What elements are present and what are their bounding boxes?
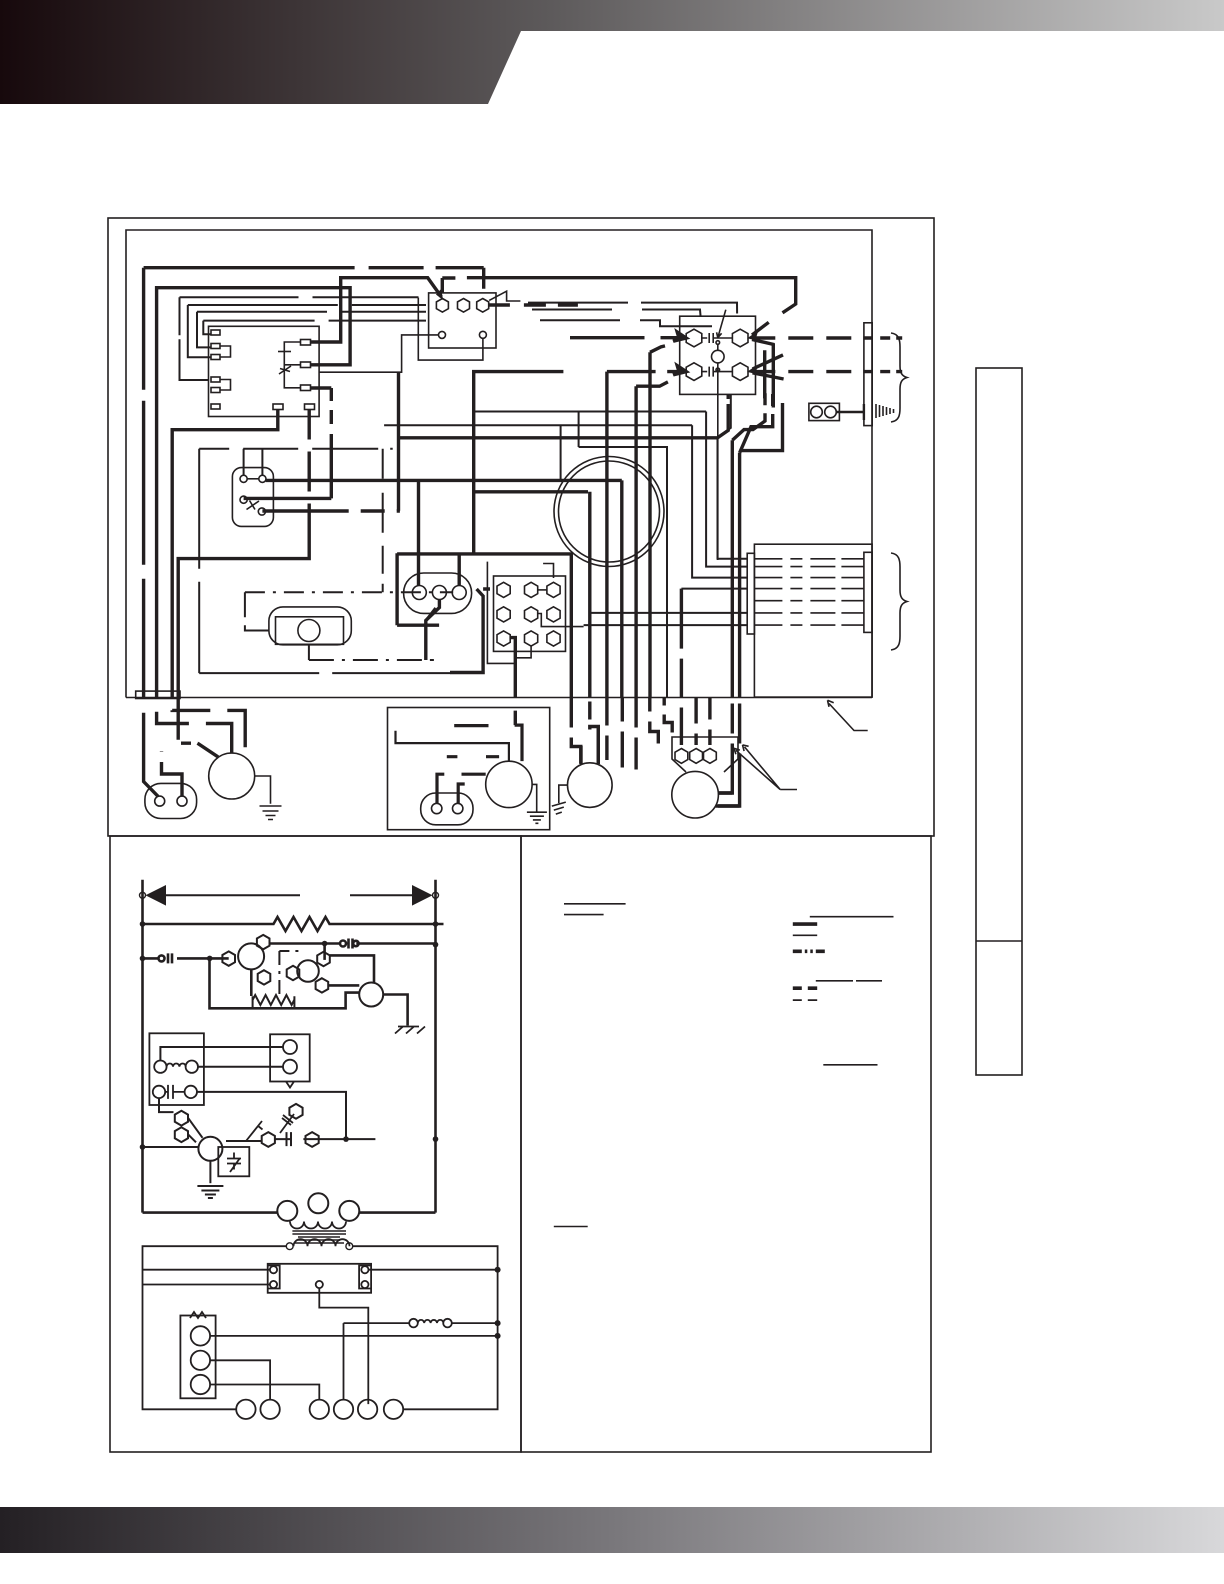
inducer ground wire	[383, 995, 407, 1026]
relay hex R1	[732, 329, 748, 347]
legend sample thin dash	[793, 999, 817, 1001]
tstat squiggle	[190, 1312, 206, 1318]
relay arrowheads R1	[748, 332, 761, 341]
cabinet inner box	[126, 230, 872, 698]
tstat circle 2	[191, 1351, 210, 1370]
fuse box	[268, 1264, 371, 1293]
rung2 drop	[323, 944, 326, 960]
right rail dot rung2	[433, 942, 439, 948]
block hex 11	[497, 582, 510, 597]
heavy v650	[650, 346, 665, 698]
xfmr core	[292, 1231, 346, 1243]
t-line 3	[197, 310, 701, 348]
igniter hex bottom	[258, 970, 271, 984]
left rail dot rung3	[140, 956, 146, 962]
block wire 22-23	[538, 614, 584, 627]
relay drop dash B	[740, 394, 773, 453]
board inner splice mark	[279, 366, 291, 374]
hex to motor links	[188, 1118, 203, 1143]
inducer wire top	[330, 955, 374, 982]
wire cap left down	[159, 1098, 174, 1112]
heavy low rung	[210, 958, 360, 1008]
heater wire 3	[754, 577, 864, 579]
blower motor ground wire	[255, 776, 271, 804]
tstat wire 1	[210, 1335, 498, 1337]
board terminal 1	[211, 330, 220, 335]
door switch blade	[247, 501, 260, 510]
legend col underline 3	[823, 1064, 877, 1066]
limit hex 2	[690, 749, 703, 764]
wire W3 top dashed	[144, 268, 484, 289]
wire W4 board b1	[172, 410, 278, 748]
rail right	[434, 880, 437, 1213]
terminal circle 2	[260, 1400, 279, 1419]
pin connector oval	[404, 573, 472, 613]
relay drop dash A	[732, 393, 765, 440]
right sidebar box	[976, 368, 1022, 1075]
fuse clip L	[268, 1266, 280, 1289]
wire W9 oval c2 lead	[426, 600, 440, 661]
below-wall dash 664	[664, 698, 672, 733]
rung1 resistor	[143, 917, 444, 931]
inductor coil terminal right	[443, 1319, 452, 1328]
legend col underline 1	[810, 916, 894, 918]
block hex 32	[525, 631, 538, 646]
heater wire 6	[754, 612, 864, 614]
wire cap to right	[197, 1092, 346, 1139]
switch blade 1	[246, 1121, 263, 1141]
bundle v739 heavy	[716, 453, 740, 806]
door switch contact D	[258, 508, 265, 515]
heater wire 2	[754, 566, 864, 568]
coil circle L	[154, 1061, 166, 1073]
relay arrow L1	[570, 332, 686, 341]
limit hex 1	[675, 749, 688, 764]
grommet wire	[836, 404, 864, 420]
motor rung link	[143, 1146, 199, 1148]
relay feed bevel	[442, 278, 795, 313]
wire W11 hexblock feed	[450, 589, 490, 673]
relay arrow L2	[607, 366, 686, 375]
motor entry 598	[597, 727, 600, 764]
relay junction box outline	[680, 316, 756, 394]
wire plug1	[160, 1047, 283, 1061]
heater tail 613	[591, 612, 748, 614]
terminal circle 6	[384, 1400, 403, 1419]
flame sensor circle	[297, 960, 319, 982]
heater brace	[891, 553, 907, 650]
block wire bottom exit	[516, 645, 532, 658]
motor entry 581	[579, 746, 582, 764]
t-line 1	[180, 297, 419, 380]
dimension line	[160, 894, 421, 896]
relay sensor wire	[717, 344, 719, 350]
limit feed 3	[708, 698, 711, 746]
wire oval box bottom	[397, 553, 439, 625]
inductor line	[344, 1323, 498, 1400]
block wire 12-13	[538, 589, 547, 591]
transformer hex terminal 1	[436, 299, 448, 313]
relay hex R2	[732, 363, 748, 381]
limit hex 3	[704, 749, 717, 764]
inducer motor circle	[486, 761, 532, 807]
tstat box	[180, 1316, 215, 1399]
plug notch	[286, 1082, 294, 1088]
heating element	[253, 995, 295, 1008]
tstat circle 1	[191, 1326, 210, 1345]
block hex 12	[525, 582, 538, 597]
thin v 560	[560, 425, 562, 481]
press hex 2	[175, 1127, 188, 1142]
field ground comb	[876, 404, 894, 418]
fuse wire L1	[143, 1269, 270, 1271]
block hex 22	[525, 607, 538, 622]
heater leader arrow	[828, 700, 868, 730]
sensor dashdot link	[279, 951, 298, 994]
relay arrow R1a	[752, 322, 774, 344]
legend sample dashdot	[793, 949, 825, 953]
inducer thin feed	[396, 731, 509, 761]
tstat circle 3	[191, 1375, 210, 1394]
dimension arrowheads	[147, 886, 432, 905]
terminal circle 4	[334, 1400, 353, 1419]
long low run	[199, 672, 450, 674]
t-line 2	[188, 303, 737, 358]
dimension end circles	[140, 892, 146, 898]
schematic inducer circle	[359, 983, 383, 1007]
circulator ground	[552, 785, 568, 814]
thin v 664	[579, 447, 667, 698]
gas valve solenoid circle	[298, 620, 320, 642]
inducer oval circle 2	[453, 803, 463, 813]
blower motor outer circle	[554, 457, 664, 567]
thin h 411	[474, 411, 706, 413]
t-line 4	[203, 320, 712, 334]
wire W12 hexblock drop	[510, 638, 515, 726]
grommet circle 1	[811, 406, 823, 418]
run cap symbol	[227, 1153, 241, 1173]
main diagram outer box	[108, 218, 934, 836]
control board IFC outline	[209, 326, 320, 416]
blower motor ground	[260, 806, 282, 820]
below-wall dash 636	[634, 698, 637, 770]
rung6 hex R	[306, 1132, 319, 1147]
grommet circle 2	[825, 406, 837, 418]
right bus dot 3	[495, 1333, 501, 1339]
lower left schematic box	[110, 836, 521, 1452]
door left drop	[198, 449, 200, 673]
xfmr tap circle 3	[339, 1201, 359, 1221]
fuse circle mid	[316, 1281, 323, 1288]
xfmr secondary terminal right	[346, 1243, 353, 1250]
cabinet bottom wall	[126, 697, 872, 699]
heater tail 588	[681, 588, 747, 590]
pin connector circle 2	[432, 586, 446, 600]
board jumper loop B	[220, 380, 231, 391]
fuse circle L1	[270, 1266, 277, 1273]
door switch body	[232, 468, 273, 527]
inducer hook 2	[458, 784, 465, 803]
note underline	[554, 1226, 588, 1228]
right bus dot 2	[495, 1320, 501, 1326]
sensor hex low	[316, 978, 329, 992]
heavy v622	[620, 480, 623, 697]
inductor coil winding	[418, 1320, 444, 1323]
board terminal 5	[211, 388, 220, 393]
door switch contact C	[240, 496, 247, 503]
relay pointer diagonal	[717, 310, 726, 338]
rung3 splice	[159, 953, 173, 963]
igniter circle 1	[238, 943, 264, 969]
block hex 31	[497, 631, 510, 646]
transformer circle terminal 1	[439, 331, 446, 338]
relay arrowheads R2	[748, 366, 761, 375]
below-wall dash 622	[621, 698, 624, 768]
pair bend left	[718, 793, 740, 806]
legend col underline 2	[816, 980, 882, 982]
board terminal 4	[211, 377, 220, 382]
switch blade 2	[280, 1114, 294, 1133]
relay sensor wire lower	[717, 363, 719, 560]
wire plug2	[198, 1066, 283, 1068]
xfmr tap circle 1	[277, 1201, 297, 1221]
heater wire 1	[754, 558, 864, 560]
rail left	[141, 880, 144, 1213]
field wall plate	[864, 323, 872, 426]
plug box	[270, 1034, 310, 1081]
xfmr tap circle 2	[308, 1193, 328, 1213]
thin v 578	[578, 412, 580, 448]
xfmr secondary terminal left	[286, 1243, 293, 1250]
relay small node top	[716, 341, 720, 345]
right sidebar divider	[976, 940, 1022, 942]
rung2	[270, 942, 435, 945]
block hex 21	[497, 607, 510, 622]
terminal circle 5	[358, 1400, 377, 1419]
junction box circle 2	[177, 796, 187, 806]
valve dashdot bottom	[309, 608, 435, 660]
transformer c1 stub wire	[319, 335, 438, 372]
bundle v571 below	[571, 698, 581, 764]
heavy bus 398	[399, 372, 729, 511]
thin v 717b	[718, 394, 748, 558]
board terminal 2	[211, 344, 220, 349]
inductor coil terminal left	[409, 1319, 418, 1328]
limit control hexes housing	[672, 737, 738, 772]
wire W5 board b2	[178, 410, 309, 740]
heater wire 4	[754, 588, 864, 590]
sec line right	[353, 1246, 498, 1409]
inducer heavy H	[462, 773, 486, 776]
circulator motor circle	[568, 763, 613, 808]
motor ground	[197, 1186, 223, 1198]
xfmr secondary coil	[294, 1239, 350, 1246]
thin v 706	[706, 412, 747, 567]
door right drop restore	[382, 449, 384, 593]
heavy v636	[636, 382, 668, 698]
transformer polarity flag	[489, 291, 520, 301]
cap ticks	[165, 1085, 184, 1099]
slant ground	[395, 1027, 425, 1034]
right rail dot rung1	[433, 921, 439, 927]
inducer oval connector	[421, 793, 473, 825]
legend heading underline 1	[564, 903, 626, 905]
cap circle R	[185, 1086, 197, 1098]
inducer hook 1	[437, 774, 444, 803]
blower diag feed	[181, 743, 218, 757]
heavy v606	[605, 372, 608, 698]
legend sample thin	[793, 934, 817, 936]
legend heading underline 2	[564, 914, 604, 916]
coil circle R	[186, 1061, 198, 1073]
wire W10 oval c3 lead	[458, 555, 461, 586]
valve dashdot top	[245, 592, 453, 630]
door switch contact A	[240, 475, 247, 482]
door top leg L	[243, 449, 245, 476]
wire W7 door-sw low2 dashed	[262, 509, 400, 512]
transformer c2 stub wire	[418, 298, 483, 361]
relay arrow R2a	[753, 355, 784, 379]
below-wall dash 606	[605, 698, 608, 761]
fuse clip R	[359, 1266, 371, 1289]
door switch contact B	[259, 475, 266, 482]
fuse circle R1	[361, 1266, 368, 1273]
limit feed 2	[694, 698, 697, 746]
coil squiggle	[167, 1064, 186, 1067]
door top run	[199, 448, 393, 450]
heater wire 5	[754, 600, 864, 602]
fuse mid drop	[319, 1288, 368, 1404]
block hex 33	[547, 631, 560, 646]
relay feed verticals	[765, 344, 774, 408]
wire W3 left drop	[144, 268, 158, 797]
terminal block outline	[494, 576, 566, 651]
below-wall dash 649	[650, 698, 659, 744]
press hex 3	[289, 1104, 302, 1119]
heater left connector bar	[747, 553, 754, 634]
blower motor lower circle	[209, 753, 255, 799]
element lead from igniter	[250, 969, 253, 996]
fuse wire L2	[143, 1284, 270, 1286]
limit motor circle	[672, 771, 719, 818]
relay drop dash C	[740, 403, 783, 451]
wire W6 door-sw low	[244, 388, 332, 498]
jb circle2 wire	[162, 752, 183, 797]
rung6 cap	[287, 1132, 292, 1146]
inducer dash top	[454, 724, 488, 727]
right bus dot 1	[495, 1267, 501, 1273]
board inner tick	[278, 351, 291, 353]
right rail dot rung6	[433, 1136, 439, 1142]
dimension end circle right	[433, 892, 439, 898]
inducer dash mid	[447, 755, 499, 758]
relay small node bottom	[716, 368, 720, 372]
inducer wire low	[328, 984, 359, 987]
inducer ground wire	[532, 784, 537, 811]
board terminal 3	[211, 355, 220, 360]
bundle v589	[590, 492, 599, 764]
relay dash right top	[756, 336, 902, 339]
legend sample heavy	[793, 922, 817, 926]
pin connector circle 1	[412, 586, 426, 600]
thin h 425	[384, 424, 692, 426]
transformer box	[429, 293, 496, 348]
block wire top entry	[543, 564, 553, 579]
inducer oval circle 1	[432, 803, 442, 813]
relay coil box	[149, 1033, 204, 1105]
junction box circle 1	[155, 796, 165, 806]
board inner connector bus	[284, 342, 300, 388]
relay center circle	[712, 350, 725, 363]
rung6 hex L	[262, 1132, 275, 1147]
pin connector circle 3	[452, 586, 466, 600]
fuse wire R1	[369, 1269, 498, 1271]
relay row2 link	[702, 367, 733, 377]
wire W2	[157, 288, 351, 754]
sensor hex right	[317, 952, 330, 966]
heavy H 491	[474, 490, 588, 493]
terminal circle 3	[310, 1400, 329, 1419]
press hex 1	[175, 1111, 188, 1126]
block hex 13	[547, 582, 560, 597]
grommet box	[809, 403, 840, 420]
rung6 dot	[343, 1136, 349, 1142]
heavy bus 473	[474, 372, 564, 554]
board jumper loop A	[220, 346, 231, 357]
rung3	[143, 956, 265, 958]
junction box oval	[145, 783, 197, 818]
motor ground lead	[209, 1161, 211, 1183]
wire hot W1	[310, 278, 441, 342]
bottom rung	[143, 1211, 436, 1214]
lower right legend box	[521, 836, 931, 1452]
rung2 splice	[340, 939, 359, 949]
sensor hex left	[287, 966, 300, 980]
relay hex L1	[686, 329, 702, 347]
tstat wire 2	[210, 1360, 270, 1399]
board right terminal R1	[301, 340, 311, 346]
footer banner	[0, 1507, 1224, 1553]
plug circle 1	[283, 1040, 297, 1054]
header banner	[0, 0, 1224, 104]
wire W8 oval top run	[397, 554, 571, 698]
wall grommet rect	[136, 691, 180, 698]
wire W1 arrowhead	[437, 290, 443, 299]
legend sample heavy dash	[793, 986, 817, 990]
board bottom terminal B1	[273, 404, 283, 410]
fuse circle R2	[361, 1281, 368, 1288]
tstat wire 3	[210, 1385, 319, 1400]
heavy c1 lead	[266, 480, 622, 586]
gas valve body	[269, 607, 351, 645]
igniter hex top	[257, 935, 270, 949]
board wire to R2	[284, 364, 300, 366]
terminal circle 1	[236, 1400, 255, 1419]
door top leg R	[261, 449, 263, 476]
gas valve inner frame	[276, 617, 344, 645]
bundle v732 heavy	[718, 440, 732, 793]
inducer compartment box	[388, 708, 550, 830]
fuse circle L2	[270, 1281, 277, 1288]
heater right connector bar	[864, 552, 872, 632]
thin v 692	[692, 425, 747, 577]
igniter hex A	[222, 951, 235, 965]
board right terminal R2	[301, 362, 311, 368]
schematic motor	[198, 1137, 222, 1161]
transformer hex terminal 2	[458, 299, 470, 313]
relay row1 link	[702, 333, 733, 343]
run cap box	[218, 1147, 249, 1176]
